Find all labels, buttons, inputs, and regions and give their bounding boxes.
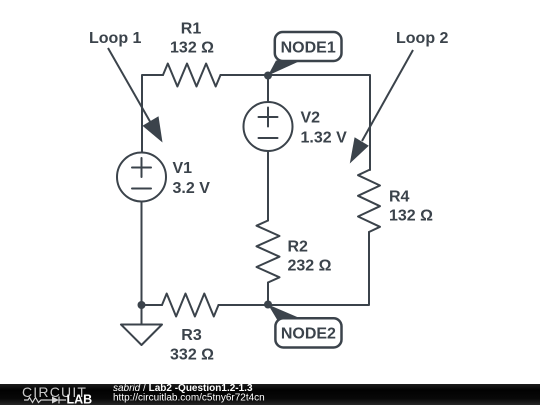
label R1 value bbox=[170, 21, 214, 57]
logo resistor-diode glyph bbox=[24, 397, 66, 404]
wire top-left horizontal (corner to R1) bbox=[142, 75, 163, 152]
svg-text:R3: R3 bbox=[181, 327, 202, 344]
loop 1 annotation arrow bbox=[108, 48, 163, 143]
wire R2 to node2 bbox=[267, 283, 269, 306]
node junction dot NODE2 bbox=[264, 301, 272, 309]
label R4 value bbox=[389, 189, 433, 225]
wire junction to R3 bbox=[142, 304, 163, 306]
node junction dot ground bbox=[138, 301, 146, 309]
wire V2 to R2 bbox=[267, 151, 269, 221]
label V1 value bbox=[173, 160, 211, 197]
loop 2 annotation arrow bbox=[350, 50, 413, 164]
NODE2 flag box bbox=[268, 305, 342, 348]
svg-text:132 Ω: 132 Ω bbox=[389, 208, 433, 225]
resistor R1 bbox=[163, 64, 221, 87]
resistor R2 bbox=[257, 221, 280, 283]
label R2 value bbox=[288, 239, 332, 275]
svg-text:http://circuitlab.com/c5tny6r7: http://circuitlab.com/c5tny6r72t4cn bbox=[113, 393, 265, 404]
svg-text:1.32 V: 1.32 V bbox=[301, 130, 348, 147]
NODE1 flag box bbox=[268, 32, 342, 76]
resistor R4 bbox=[358, 170, 380, 232]
svg-text:NODE2: NODE2 bbox=[281, 326, 336, 343]
resistor R3 bbox=[162, 294, 219, 317]
svg-text:LAB: LAB bbox=[67, 393, 93, 405]
svg-text:R1: R1 bbox=[181, 21, 202, 38]
wire R4 to bottom-right corner bbox=[268, 232, 369, 305]
voltage source V1 bbox=[117, 153, 166, 202]
svg-text:V1: V1 bbox=[173, 160, 193, 177]
label V2 value bbox=[301, 110, 348, 147]
ground bbox=[121, 305, 162, 345]
wire node1 to top-right corner bbox=[268, 75, 370, 170]
label R3 value bbox=[170, 327, 214, 364]
svg-text:132 Ω: 132 Ω bbox=[170, 40, 214, 57]
svg-text:R2: R2 bbox=[288, 239, 309, 256]
svg-text:Loop 1: Loop 1 bbox=[89, 30, 142, 47]
wire R3 to node2 bbox=[219, 304, 269, 306]
svg-text:3.2 V: 3.2 V bbox=[173, 180, 211, 197]
svg-text:V2: V2 bbox=[301, 110, 321, 127]
svg-text:332 Ω: 332 Ω bbox=[170, 347, 214, 364]
node junction dot NODE1 bbox=[264, 72, 272, 80]
svg-text:NODE1: NODE1 bbox=[281, 39, 336, 56]
svg-text:Loop 2: Loop 2 bbox=[396, 30, 449, 47]
svg-text:R4: R4 bbox=[389, 189, 410, 206]
wire R1 to node1 bbox=[221, 74, 269, 76]
voltage source V2 bbox=[244, 102, 293, 151]
wire V1 down to bottom-left junction bbox=[141, 202, 143, 306]
wire node1 down to V2 bbox=[267, 75, 269, 102]
svg-text:232 Ω: 232 Ω bbox=[288, 258, 332, 275]
